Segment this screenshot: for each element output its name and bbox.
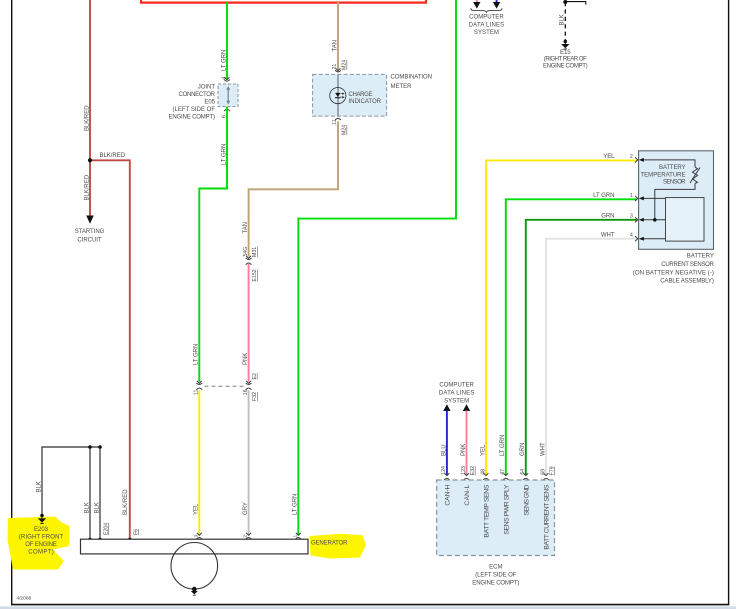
svg-text:CURRENT SENSOR: CURRENT SENSOR (661, 262, 714, 268)
connector M31/E152 inline symbols (246, 256, 251, 258)
svg-text:SENSOR: SENSOR (663, 179, 686, 185)
svg-text:METER: METER (391, 84, 413, 90)
joint connector E05 internal double arrow (226, 86, 230, 105)
svg-text:CABLE ASSEMBLY): CABLE ASSEMBLY) (660, 279, 714, 285)
internal wire pin4 to current sensor (640, 238, 666, 240)
svg-text:CHARGE: CHARGE (349, 92, 373, 98)
internal wire pin1 to current sensor (640, 197, 666, 199)
diagram right border (728, 0, 730, 605)
connector symbol top of E05 (225, 77, 230, 79)
svg-text:BATT CURRENT SENS: BATT CURRENT SENS (544, 484, 551, 549)
svg-text:BLU: BLU (441, 444, 447, 456)
svg-text:TEMPERATURE: TEMPERATURE (641, 172, 686, 178)
svg-text:BATTERY: BATTERY (687, 254, 714, 260)
connector symbols at ECM pins (444, 473, 549, 480)
computer data lines system (bottom) (439, 383, 475, 476)
svg-text:SYSTEM: SYSTEM (474, 30, 499, 36)
svg-text:1: 1 (292, 535, 298, 538)
wire BLK generator to ground junction (left) (89, 447, 91, 539)
wire YEL from F32 to generator (198, 390, 200, 535)
svg-text:ENGINE COMPT): ENGINE COMPT) (169, 115, 216, 121)
svg-text:WHT: WHT (540, 442, 546, 456)
svg-text:BLK/RED: BLK/RED (100, 153, 126, 159)
connector symbol LT GRN pin 1 at generator (296, 533, 301, 535)
internal wire pin3 to current sensor (640, 219, 666, 221)
wire BLU stub top (496, 0, 498, 2)
generator body bar (81, 539, 309, 554)
diagram left border (11, 0, 13, 605)
svg-text:ENGINE COMPT): ENGINE COMPT) (543, 63, 588, 69)
svg-text:47: 47 (500, 469, 506, 475)
svg-text:LT GRN: LT GRN (221, 50, 227, 71)
svg-text:OF ENGINE: OF ENGINE (25, 542, 57, 548)
wire PNK CAN-L (466, 411, 468, 476)
svg-text:E05: E05 (204, 100, 215, 106)
arrow up CAN-L (463, 404, 470, 411)
wire PNK stub top (476, 0, 478, 2)
svg-text:STARTING: STARTING (75, 229, 105, 235)
joint connector E05 box (218, 84, 238, 107)
svg-text:GRN: GRN (601, 213, 614, 219)
node junction dot BLK/RED (88, 158, 92, 162)
pin arrows battery sensor (639, 158, 644, 241)
internal wire pin2 to thermistor (640, 160, 695, 167)
svg-text:TAN: TAN (243, 222, 249, 234)
svg-text:CIRCUIT: CIRCUIT (77, 237, 102, 243)
svg-text:(ON BATTERY NEGATIVE (-): (ON BATTERY NEGATIVE (-) (633, 270, 714, 276)
svg-text:54G: 54G (243, 247, 249, 257)
svg-text:E152: E152 (252, 269, 258, 281)
node dot BLK/RED at generator (128, 538, 132, 542)
svg-text:COMPUTER: COMPUTER (469, 15, 504, 21)
svg-text:DATA LINES: DATA LINES (469, 22, 505, 28)
svg-text:GENERATOR: GENERATOR (311, 540, 348, 546)
svg-text:E204: E204 (103, 523, 109, 535)
connector symbol YEL pin 3 at generator (197, 533, 202, 535)
generator circle (171, 543, 218, 590)
svg-text:BLK: BLK (94, 502, 100, 513)
ground E15 symbol (561, 40, 569, 49)
highlight E203 (yellow marker) (8, 517, 70, 570)
svg-text:BLK/RED: BLK/RED (123, 489, 129, 515)
svg-text:BATT TEMP SENS: BATT TEMP SENS (484, 484, 491, 537)
svg-text:LT GRN: LT GRN (194, 344, 200, 365)
arrow down (CAN to data lines) left (473, 2, 480, 9)
wire LT GRN from power box to joint connector (226, 2, 228, 80)
svg-text:69: 69 (540, 469, 546, 475)
svg-text:(RIGHT FRONT: (RIGHT FRONT (19, 535, 64, 541)
connector chevrons battery sensor (635, 157, 638, 241)
svg-text:GRN: GRN (520, 443, 526, 456)
svg-text:3: 3 (630, 213, 633, 219)
wire TAN from power box to meter (337, 2, 339, 71)
svg-text:WHT: WHT (601, 232, 615, 238)
ECM box (437, 480, 555, 556)
wire TAN from meter down and left to M31 (249, 122, 338, 257)
svg-text:3: 3 (193, 535, 199, 538)
svg-text:CAN-L: CAN-L (464, 484, 471, 505)
svg-text:YEL: YEL (603, 154, 615, 160)
wire BLU CAN-H (446, 411, 448, 476)
battery sensor outer box (639, 151, 714, 250)
LED symbol (335, 92, 345, 99)
node dot at E15 branch (563, 0, 567, 4)
svg-text:CAN-H: CAN-H (445, 485, 452, 506)
svg-text:48: 48 (480, 469, 486, 475)
svg-text:M31: M31 (252, 247, 258, 257)
svg-text:F32: F32 (252, 392, 258, 401)
wire YEL ECM pin 48 to battery temperature sensor pin 2 (486, 160, 637, 475)
generator case ground dot (192, 587, 197, 592)
diagram bottom border (11, 604, 729, 606)
computer data lines system (top) (469, 0, 505, 36)
wire LT GRN ECM pin 47 to battery sensor pin 1 (506, 199, 637, 475)
node dot BLK at generator left (88, 538, 92, 542)
connector symbol GRY pin 2 at generator (246, 533, 251, 535)
svg-text:F6: F6 (133, 529, 139, 535)
svg-text:PNK: PNK (461, 444, 467, 456)
arrow down (CAN to data lines) right (493, 2, 500, 9)
svg-text:2: 2 (243, 535, 249, 538)
node dot junction BLK left (88, 445, 92, 449)
internal wire thermistor to pin3 junction (655, 184, 695, 220)
svg-text:124: 124 (441, 466, 447, 475)
charge indicator LED circle (330, 88, 346, 104)
svg-text:SENS PWR SPLY: SENS PWR SPLY (503, 484, 510, 534)
svg-text:BLK: BLK (37, 481, 43, 492)
svg-text:4: 4 (630, 232, 633, 238)
svg-text:BLK/RED: BLK/RED (85, 174, 91, 200)
svg-text:1: 1 (630, 193, 633, 199)
wire inside meter (gray) (337, 74, 339, 116)
svg-text:INDICATOR: INDICATOR (349, 99, 382, 105)
svg-text:(LEFT SIDE OF: (LEFT SIDE OF (173, 107, 216, 113)
wire BLK dashed to ground E15 (564, 2, 566, 41)
svg-text:COMBINATION: COMBINATION (391, 75, 433, 81)
connector symbol meter bottom (335, 118, 341, 120)
brace under arrows (471, 8, 502, 12)
bottom window band (0, 606, 736, 609)
svg-text:21: 21 (332, 64, 338, 70)
svg-text:123: 123 (461, 466, 467, 475)
svg-text:E32: E32 (470, 466, 476, 475)
svg-text:E203: E203 (34, 527, 49, 533)
battery current sensor inner box (666, 198, 705, 242)
svg-text:LT GRN: LT GRN (593, 193, 614, 199)
svg-text:LT GRN: LT GRN (293, 494, 299, 515)
node dot thermistor/pin3 junction (653, 218, 657, 222)
power box (top, cut off) red outline (141, 0, 426, 3)
combination meter box (313, 74, 387, 116)
wire LT GRN from E05 down and left (199, 107, 227, 382)
svg-text:ENGINE COMPT): ENGINE COMPT) (472, 580, 519, 586)
wire BLK/RED branch to generator (90, 160, 130, 539)
svg-text:GRY: GRY (243, 502, 249, 515)
svg-text:E2: E2 (252, 373, 258, 379)
svg-text:YEL: YEL (480, 444, 486, 456)
svg-text:TAN: TAN (332, 40, 338, 52)
svg-text:64: 64 (520, 469, 526, 475)
svg-text:M24: M24 (342, 60, 348, 70)
svg-text:E15: E15 (560, 50, 571, 56)
svg-text:(LEFT SIDE OF: (LEFT SIDE OF (475, 573, 516, 579)
wire GRY from F32 to generator (248, 390, 250, 535)
svg-text:YEL: YEL (194, 503, 200, 515)
svg-text:COMPT): COMPT) (28, 550, 54, 556)
dashed link between F32 halves (205, 385, 244, 387)
svg-text:LT GRN: LT GRN (221, 144, 227, 165)
wire BLK generator to ground junction (right) (99, 447, 101, 539)
svg-text:BLK/RED: BLK/RED (85, 105, 91, 131)
node dot BLK at generator right (98, 538, 102, 542)
svg-text:4/2088: 4/2088 (17, 596, 32, 602)
wire LT GRN right side long run to generator (298, 0, 456, 535)
svg-text:BLK: BLK (559, 14, 565, 25)
wire BLK/RED stub to starting circuit (89, 160, 91, 217)
node dot junction BLK right (98, 445, 102, 449)
highlight GENERATOR (yellow marker) (310, 534, 367, 559)
svg-text:2: 2 (630, 154, 633, 160)
connector symbol bottom of E05 (224, 109, 230, 111)
wire WHT ECM pin 69 to battery sensor pin 4 (546, 239, 637, 476)
svg-text:M24: M24 (342, 125, 348, 135)
wire PNK from E152 to F32 (248, 264, 250, 382)
svg-text:ECM: ECM (489, 565, 502, 571)
arrow to starting circuit (86, 216, 94, 224)
svg-text:(RIGHT REAR OF: (RIGHT REAR OF (544, 57, 587, 63)
wire BLK/RED main vertical (89, 0, 91, 160)
wire BLK ground run bottom-left (42, 447, 100, 515)
svg-text:PNK: PNK (243, 353, 249, 365)
arrow up CAN-H (443, 404, 450, 411)
generator case ground symbol (191, 589, 198, 595)
svg-text:JOINT: JOINT (198, 84, 216, 90)
svg-text:F79: F79 (549, 466, 555, 475)
wire GRN ECM pin 64 to battery sensor pin 3 (526, 220, 637, 476)
svg-text:COMPUTER: COMPUTER (439, 383, 474, 389)
connector F32 inline symbols (pink wire) (246, 381, 251, 383)
ground E203 symbol (38, 514, 46, 524)
svg-text:SENS GND: SENS GND (523, 485, 530, 516)
connector F32 inline symbols (green wire) (197, 381, 202, 383)
connector symbol meter top (336, 68, 341, 70)
thermistor (battery temperature sensor) (693, 167, 698, 184)
svg-text:BLK: BLK (84, 502, 90, 513)
svg-text:DATA LINES: DATA LINES (439, 390, 475, 396)
svg-text:CONNECTOR: CONNECTOR (179, 92, 216, 98)
svg-text:LT GRN: LT GRN (500, 435, 506, 456)
wire to power box (bracket) (565, 2, 586, 5)
svg-text:SYSTEM: SYSTEM (444, 398, 469, 404)
svg-text:BATTERY: BATTERY (659, 165, 686, 171)
